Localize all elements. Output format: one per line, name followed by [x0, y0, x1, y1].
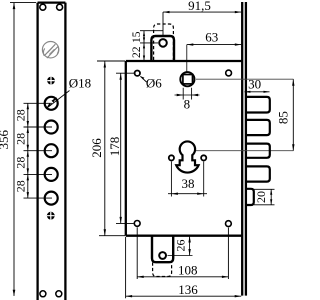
big hole 5: [45, 192, 58, 205]
svg-text:Ø18: Ø18: [69, 76, 91, 91]
keyhole side hole left: [169, 155, 174, 160]
hole bottom-right: [226, 221, 232, 227]
big hole 3: [45, 144, 58, 157]
faceplate bottom screw hole left: [40, 291, 46, 297]
dimension 38: [168, 162, 207, 197]
keyhole side hole right: [201, 155, 206, 160]
svg-text:85: 85: [276, 111, 291, 124]
dimension 356: [10, 3, 36, 296]
dimension 178: [116, 73, 134, 223]
lock body outline: [126, 61, 242, 236]
dimension 206: [97, 61, 125, 236]
dimension 8: [175, 88, 200, 100]
svg-text:Ø6: Ø6: [146, 76, 162, 91]
top tab dashed alternate: [154, 24, 174, 60]
dimension chain 28 x4: [24, 103, 53, 198]
big hole 4: [45, 168, 58, 181]
faceplate side view line A: [241, 2, 243, 296]
cross screw top: [47, 77, 55, 85]
bottom tab solid: [152, 236, 173, 262]
dimension 63: [187, 44, 242, 46]
bottom tab dashed alternate: [153, 263, 172, 277]
hole bottom-left: [134, 221, 140, 227]
svg-text:38: 38: [182, 176, 195, 191]
svg-text:91,5: 91,5: [188, 0, 211, 13]
svg-text:356: 356: [0, 130, 11, 150]
spindle hub: [180, 72, 194, 86]
faceplate top screw hole left: [40, 4, 46, 10]
faceplate top screw hole right: [57, 4, 63, 10]
svg-text:28: 28: [14, 109, 28, 121]
big hole 2: [45, 121, 58, 134]
dimension 136: [126, 237, 242, 298]
svg-text:15: 15: [131, 31, 143, 43]
faceplate side view line B: [245, 2, 247, 296]
svg-text:28: 28: [14, 133, 28, 145]
dimension 20: [254, 189, 275, 205]
faceplate front view: [38, 3, 66, 300]
hole top-right: [226, 70, 232, 76]
faceplate bottom screw hole right: [56, 291, 62, 297]
spindle square 8mm: [183, 75, 193, 84]
top tab hole: [159, 39, 167, 47]
svg-text:20: 20: [254, 191, 268, 203]
deadbolt 3: [245, 144, 270, 158]
svg-text:108: 108: [178, 263, 198, 278]
svg-text:8: 8: [184, 97, 191, 112]
svg-text:26: 26: [174, 240, 188, 252]
logo: [42, 42, 58, 59]
svg-text:28: 28: [14, 157, 28, 169]
top tab solid: [151, 36, 174, 61]
svg-text:63: 63: [205, 30, 218, 45]
keyhole: [176, 141, 198, 172]
centerline keyhole axis: [196, 150, 294, 152]
cross screw bottom: [47, 212, 55, 220]
svg-text:136: 136: [178, 282, 198, 297]
dimension 85: [292, 79, 294, 151]
svg-text:30: 30: [248, 77, 261, 92]
deadbolt 1: [245, 97, 270, 113]
spindle centerline extension: [186, 45, 188, 72]
dimension 108: [137, 227, 228, 279]
dimension 91,5: [163, 12, 241, 36]
bottom tab hole: [159, 252, 166, 259]
deadbolt 4: [245, 166, 270, 181]
svg-text:28: 28: [14, 180, 28, 192]
big hole 1: [45, 97, 58, 110]
dimension 15 / 22: [140, 31, 163, 61]
latch bolt: [245, 189, 254, 205]
dimension 30: [244, 91, 269, 93]
svg-text:206: 206: [89, 138, 104, 158]
deadbolt 2: [245, 120, 270, 135]
svg-text:178: 178: [107, 137, 122, 157]
svg-text:22: 22: [131, 46, 143, 58]
dimension 26: [168, 236, 193, 256]
hole Ø6 top-left: [135, 71, 140, 76]
centerline spindle axis: [196, 78, 293, 80]
